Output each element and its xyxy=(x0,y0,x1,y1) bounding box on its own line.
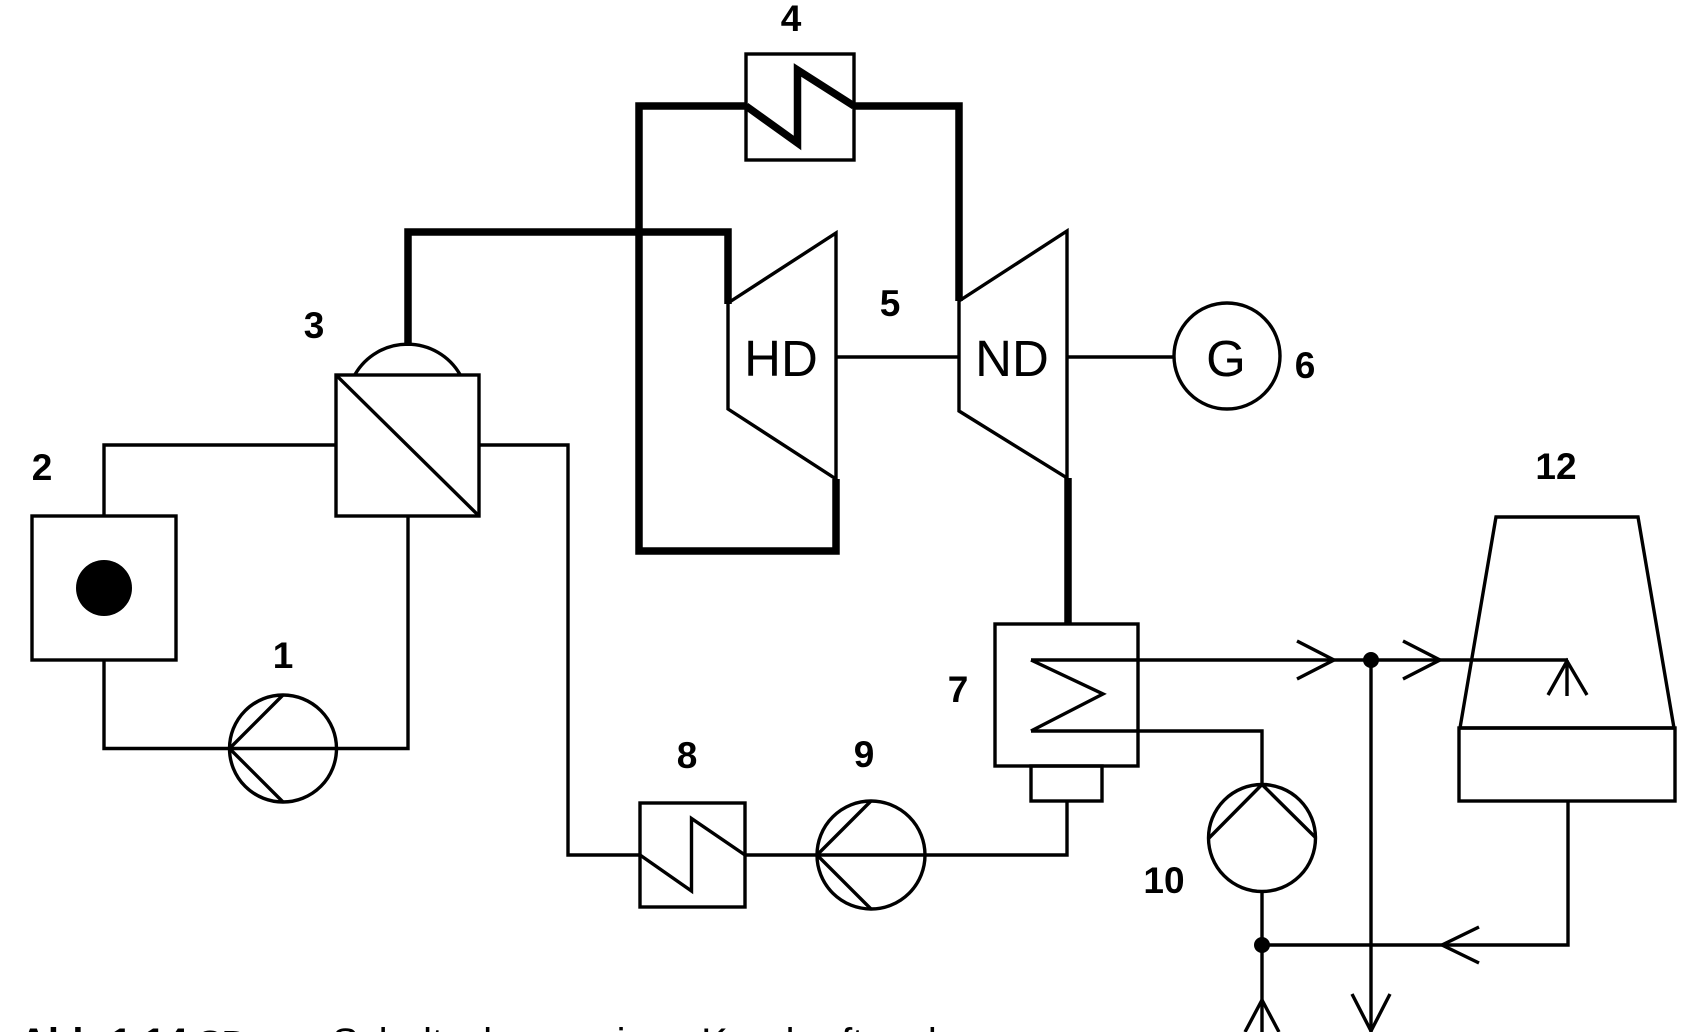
svg-text:3: 3 xyxy=(304,305,325,346)
svg-text:10: 10 xyxy=(1143,860,1184,901)
svg-text:12: 12 xyxy=(1535,446,1576,487)
svg-text:2: 2 xyxy=(32,447,53,488)
svg-text:1.14: 1.14 xyxy=(110,1021,189,1032)
svg-text:Abb.: Abb. xyxy=(19,1021,108,1032)
svg-text:SD: SD xyxy=(198,1023,248,1032)
svg-text:4: 4 xyxy=(781,0,802,39)
svg-text:G: G xyxy=(1206,330,1246,387)
svg-text:6: 6 xyxy=(1295,345,1316,386)
svg-text:HD: HD xyxy=(744,330,818,387)
svg-text:9: 9 xyxy=(854,734,875,775)
svg-text:1: 1 xyxy=(273,635,294,676)
svg-text:5: 5 xyxy=(880,283,901,324)
svg-text:ND: ND xyxy=(975,330,1049,387)
svg-text:7: 7 xyxy=(948,669,969,710)
svg-text:Schaltschema eines Kernkraftwe: Schaltschema eines Kernkraftwerks xyxy=(332,1021,968,1032)
svg-text:8: 8 xyxy=(677,735,698,776)
